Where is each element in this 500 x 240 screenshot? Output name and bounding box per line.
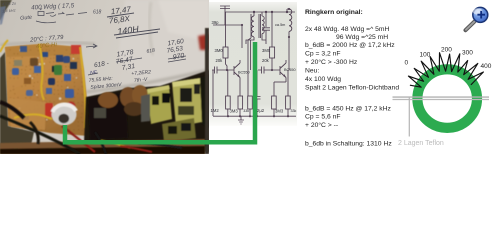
svg-text:200: 200	[441, 47, 452, 54]
svg-text:2 Lagen Teflon: 2 Lagen Teflon	[398, 140, 444, 147]
svg-text:b_6dB = 2000 Hz @ 17,2 kHz: b_6dB = 2000 Hz @ 17,2 kHz	[305, 42, 395, 49]
svg-text:ca.5m: ca.5m	[275, 23, 285, 27]
svg-text:400: 400	[481, 63, 492, 70]
svg-text:300: 300	[462, 50, 473, 57]
svg-text:100: 100	[420, 52, 431, 59]
svg-text:470k 2x: 470k 2x	[2, 1, 17, 7]
svg-text:Spalt 2 Lagen Teflon-Dichtband: Spalt 2 Lagen Teflon-Dichtband	[305, 84, 399, 91]
svg-text:4x 100 Wdg: 4x 100 Wdg	[305, 76, 341, 83]
svg-text:39p: 39p	[212, 20, 220, 25]
svg-text:33k: 33k	[291, 109, 297, 113]
svg-text:20k: 20k	[216, 58, 224, 63]
svg-text:BC550: BC550	[238, 71, 250, 75]
svg-text:3M0: 3M0	[262, 48, 271, 53]
svg-text:Ringkern original:: Ringkern original:	[305, 9, 363, 16]
svg-text:3M3: 3M3	[230, 109, 239, 114]
svg-text:7th -V: 7th -V	[134, 77, 148, 84]
svg-text:3M3: 3M3	[275, 109, 284, 114]
svg-text:Neu:: Neu:	[305, 67, 319, 74]
svg-text:Cp = 5,6 nF: Cp = 5,6 nF	[305, 114, 340, 121]
svg-text:b_6db in Schaltung: 1310 Hz: b_6db in Schaltung: 1310 Hz	[305, 141, 392, 148]
svg-text:Cp = 3,2 nF: Cp = 3,2 nF	[305, 50, 340, 57]
svg-text:3M0: 3M0	[215, 48, 224, 53]
svg-text:2x 48 Wdg. 48 Wdg =^ 5mH: 2x 48 Wdg. 48 Wdg =^ 5mH	[305, 26, 390, 33]
svg-text:+ 20°C > -300 Hz: + 20°C > -300 Hz	[305, 58, 358, 66]
svg-text:0: 0	[405, 60, 409, 67]
svg-text:20k: 20k	[262, 58, 270, 63]
svg-text:BC550: BC550	[284, 68, 296, 72]
svg-text:618: 618	[93, 10, 102, 16]
svg-text:1,4 kHz: 1,4 kHz	[2, 8, 16, 14]
svg-text:2µ2: 2µ2	[257, 108, 265, 113]
svg-text:b_6dB = 450 Hz @ 17,2 kHz: b_6dB = 450 Hz @ 17,2 kHz	[305, 105, 391, 112]
svg-text:96 Wdg =^25 mH: 96 Wdg =^25 mH	[336, 34, 388, 41]
svg-text:33k: 33k	[243, 109, 249, 113]
svg-text:Gute: Gute	[20, 15, 32, 22]
svg-text:1M2: 1M2	[211, 108, 220, 113]
svg-text:+ 20°C > --: + 20°C > --	[305, 121, 338, 129]
